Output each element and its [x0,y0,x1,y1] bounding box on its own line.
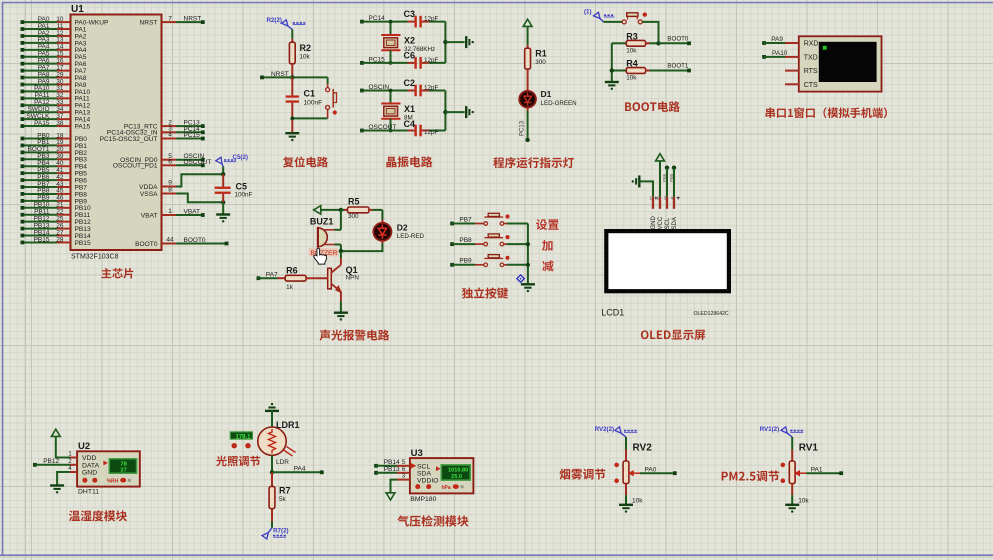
svg-text:VSSA: VSSA [140,191,158,198]
svg-text:78: 78 [120,461,127,467]
chip U1 body [71,15,162,251]
svg-text:PB7: PB7 [459,216,472,223]
chip U3 body (BMP180) [410,458,474,493]
net PB12 wire [33,463,37,467]
svg-text:4: 4 [168,132,172,139]
pin PA8 / net PA8 (pin 29) [21,76,25,80]
wire to reset button [327,77,329,83]
crystal X2 32.768KHz [390,22,392,35]
svg-text:1: 1 [168,208,172,215]
net BOOT1 wire [659,70,690,72]
wire PB8 button to rail [504,243,507,245]
svg-text:RV1: RV1 [799,443,819,454]
svg-text:300: 300 [535,59,546,66]
U3 pin SDA (6) [397,472,410,474]
svg-text:PA15: PA15 [34,120,50,127]
DHT11 display screen [104,461,108,465]
wire right rail (X2) [444,22,446,63]
ground (reset) [285,132,299,134]
svg-text:OSCIN: OSCIN [369,84,390,91]
svg-text:VDDIO: VDDIO [417,477,439,484]
caption 程序运行指示灯 [493,157,574,168]
svg-text:C1: C1 [304,89,316,99]
ground (C5) [216,213,230,215]
svg-text:PC14: PC14 [369,15,386,22]
net PA7 wire [257,276,261,280]
wire NRST horizontal [262,76,292,78]
svg-text:300: 300 [348,213,359,220]
svg-text:R7: R7 [279,486,291,496]
svg-text:R3: R3 [626,31,638,41]
svg-text:PC15-OSC32_OUT: PC15-OSC32_OUT [100,136,158,143]
resistor R1 300 [527,45,529,48]
pin PA7 / net PA7 (pin 17) [21,69,25,73]
svg-text:VDDA: VDDA [139,184,158,191]
wire LDR to PA4 node [271,455,273,472]
pin PA10 / net PA10 (pin 31) [21,90,25,94]
svg-text:PC15: PC15 [184,132,201,139]
capacitor C3 12pF [408,21,415,23]
OLED pin VCC (pin 2) [659,197,661,209]
svg-text:RV2: RV2 [633,443,653,454]
net SCL wire [665,166,669,170]
wire flag to boot button [604,21,623,23]
node rail mid (X2) [443,40,447,44]
ground (BOOT) [605,81,619,83]
wire boot button to BOOT0 node [642,22,658,43]
DHT11 buttons [82,478,87,483]
resistor R3 10k [612,42,627,44]
caption 串口1窗口（模拟手机端） [766,107,887,118]
svg-text:TXD: TXD [804,55,818,62]
svg-text:NRST: NRST [184,16,202,23]
caption BOOT电路 [625,101,680,112]
svg-text:R2(2): R2(2) [267,17,282,24]
node PC13 (indicator) [525,138,529,142]
caption 减 [542,260,553,271]
svg-text:U3: U3 [411,448,423,459]
pin PA12 / net PA12 (pin 33) [21,103,25,107]
net OSCIN wire [360,89,364,93]
push-button (PB9) [475,264,484,266]
pin PB9 / net PB9 (pin 46) [21,199,25,203]
svg-text:C5: C5 [236,182,248,192]
net PB13 wire [374,471,378,475]
pin PC15-OSC32_OUT (pin 4) [162,138,177,140]
power arrow (alarm, left-pointing) [314,206,321,214]
pin VDDA (pin 9) [162,186,177,188]
caption 烟雾调节 [560,469,606,480]
caption 加 [542,240,553,251]
resistor R7 5k [271,472,273,486]
svg-text:BOOT0: BOOT0 [135,241,158,248]
svg-text:BMP180: BMP180 [410,496,436,503]
U3 pin VDDIO (3) [397,479,410,481]
caption 独立按键 [462,287,508,298]
svg-text:%RH: %RH [107,478,119,484]
svg-text:10k: 10k [300,54,311,61]
pin PB11 / net PB11 (pin 22) [21,213,25,217]
svg-text:GND: GND [651,216,657,230]
pin PB4 / net PB4 (pin 40) [21,164,25,168]
svg-text:PB14: PB14 [384,459,400,466]
wire keys right rail [527,224,529,285]
node R5 left junction [339,208,343,212]
svg-text:179.1: 179.1 [235,434,251,440]
LED D2 LED-RED [381,220,383,223]
svg-text:SCL: SCL [417,464,430,471]
net SDA wire [672,166,676,170]
RV1 adjust dots [781,463,786,468]
svg-text:C6: C6 [404,51,416,61]
net PC14 wire [360,20,364,24]
svg-text:OSCOUT_PD1: OSCOUT_PD1 [113,163,158,170]
wire power to R1 [527,26,529,44]
caption 复位电路 [283,156,328,167]
wire D1 to PC13 node [527,108,529,112]
BMP180 buttons [415,484,420,489]
BUZZER value label (highlighted) [309,248,339,256]
terminal pin TXD [785,56,799,58]
svg-text:LED-GREEN: LED-GREEN [541,100,577,107]
terminal screen [819,42,877,82]
svg-text:NPN: NPN [346,275,360,282]
pin PA9 / net PA9 (pin 30) [21,83,25,87]
svg-text:100nF: 100nF [304,100,323,107]
net PA10 wire [762,55,766,59]
potentiometer RV2 10k [625,450,627,462]
net PB8 wire [450,242,454,246]
wire left rail (BOOT) [611,43,613,82]
svg-text:RXD: RXD [804,41,819,48]
svg-text:Q1: Q1 [346,265,358,275]
svg-text:OLED128642C: OLED128642C [694,311,729,317]
svg-text:OSCOUT: OSCOUT [184,159,212,166]
RV2 wiper [629,471,633,476]
wire ground to LDR [271,411,273,427]
svg-text:BOOT0: BOOT0 [667,35,689,42]
pin BOOT0 (pin 44) [162,243,177,245]
net flag RV1(2) [781,427,787,433]
net PA1 wire [806,472,841,474]
pin VSSA (pin 8) [162,193,177,195]
svg-text:PA0: PA0 [645,466,657,473]
net PB7 wire [450,222,454,226]
wire D2 to collector node [381,240,383,243]
U3 pin SCL (5) [397,465,410,467]
pin PA0-WKUP / net PA0 (pin 10) [21,20,25,24]
svg-text:100nF: 100nF [235,192,253,199]
net flag R7(2) [262,533,268,539]
svg-text:PB15: PB15 [34,236,50,243]
resistor R2 10k [291,39,293,42]
buzzer pin wires [325,229,335,231]
svg-text:PA10: PA10 [772,50,788,57]
svg-text:PC15: PC15 [369,56,386,63]
node NRST junction [290,75,294,79]
svg-text:12pF: 12pF [424,16,439,23]
svg-text:RV2(2): RV2(2) [595,426,615,433]
wire flag to R2 [291,30,293,39]
svg-text:PA1: PA1 [811,466,823,473]
svg-text:44: 44 [166,237,174,244]
caption 温湿度模块 [69,510,127,521]
pin PB2 / net BOOT1 (pin 20) [21,150,25,154]
pin order markers [655,197,657,200]
ground (keys) [521,283,535,285]
pin NRST (pin 7) [162,21,177,23]
pin PA13 / net SWDIO (pin 34) [21,110,25,114]
svg-text:X2: X2 [404,36,415,46]
svg-text:VBAT: VBAT [141,212,158,219]
pin PB8 / net PB8 (pin 45) [21,192,25,196]
svg-text:SDA: SDA [672,217,678,229]
node R4 left junction [610,68,614,72]
svg-text:BUZ1: BUZ1 [310,217,334,227]
terminal pin RTS [785,70,799,72]
svg-text:C4: C4 [404,119,416,129]
wire OLED VCC pin [659,161,661,197]
node PA4 junction [270,470,274,474]
svg-text:28: 28 [56,236,64,243]
ground (alarm) [334,312,348,314]
svg-text:PA4: PA4 [294,466,306,473]
RV1 wiper [795,471,799,476]
svg-text:7: 7 [168,15,172,22]
svg-text:LDR1: LDR1 [276,420,300,430]
svg-text:C3: C3 [404,9,416,19]
LCD1 OLED body [606,231,729,291]
LDR value box 179.1 [230,432,252,439]
svg-text:12pF: 12pF [424,57,439,64]
pin PA5 / net PA5 (pin 15) [21,55,25,59]
svg-text:R5: R5 [348,197,360,207]
net PB9 wire [450,263,454,267]
terminal pin CTS [785,83,799,85]
wire VDDIO down [391,480,398,493]
pin PC13_RTC (pin 2) [162,125,177,127]
svg-text:38: 38 [56,120,64,127]
net PB14 wire [374,464,378,468]
pin PB0 / net PB0 (pin 18) [21,137,25,141]
svg-text:PB12: PB12 [43,458,59,465]
wire to ground (X1) [445,111,464,113]
wire PB7 button to rail [504,223,507,225]
svg-text:PA7: PA7 [266,271,278,278]
svg-text:12pF: 12pF [424,129,439,136]
svg-text:VCC: VCC [658,216,664,229]
svg-text:STM32F103C8: STM32F103C8 [71,254,119,261]
U2 pin GND (4) [70,471,77,473]
caption 主芯片 [101,268,133,279]
svg-text:25.0: 25.0 [451,474,462,480]
pin PA15 / net PA15 (pin 38) [21,124,25,128]
svg-text:PB6: PB6 [662,173,667,182]
net flag (1) [594,12,601,18]
svg-text:U1: U1 [71,4,84,15]
caption 晶振电路 [386,156,432,167]
OLED pin GND (pin 1) [652,197,654,209]
terminal cursor [823,46,827,50]
svg-text:D2: D2 [397,223,408,233]
wire VSSA to C5 bottom node [176,194,223,203]
svg-text:PA15: PA15 [75,123,91,130]
power arrow (indicator VCC) [523,19,532,26]
svg-text:12pF: 12pF [424,85,439,92]
node collector junction [339,249,343,253]
svg-text:C2: C2 [404,78,416,88]
node C5 top junction [221,172,225,176]
svg-text:1010.80: 1010.80 [448,468,468,474]
ground (X2, right-pointing) [465,36,467,48]
pin PB6 / net PB6 (pin 42) [21,178,25,182]
wire power to R5 node [321,209,341,211]
node rail mid (X1) [443,110,447,114]
push-button (PB8) [475,243,484,245]
LED D1 LED-GREEN [519,91,536,108]
net PA9 wire [762,41,766,45]
caption OLED显示屏 [641,330,705,340]
net OSCOUT wire [360,129,364,133]
svg-text:PB5: PB5 [669,173,674,182]
svg-text:5k: 5k [279,496,287,503]
push-button (reset) [327,84,329,88]
ground (OLED, left-pointing) [638,175,640,187]
svg-text:BOOT1: BOOT1 [667,63,689,70]
push-button (BOOT0 select) [622,20,626,24]
svg-text:DHT11: DHT11 [78,489,99,496]
terminal pin RXD [785,42,799,44]
pin VBAT (pin 1) [162,214,177,216]
pin PB3 / net PB3 (pin 39) [21,157,25,161]
wire RV1 to ground [791,495,793,505]
resistor R4 10k [612,70,627,72]
transistor Q1 NPN [340,251,342,258]
ground (RV2) [619,504,633,506]
pin PA3 / net PA3 (pin 13) [21,41,25,45]
BMP180 display screen [436,467,440,471]
virtual terminal body [799,36,882,91]
svg-text:10k: 10k [632,498,643,505]
svg-text:C5(2): C5(2) [233,154,248,161]
svg-text:NRST: NRST [140,20,158,27]
capacitor C4 12pF [408,130,415,132]
wire reset button to ground net [327,109,329,118]
potentiometer RV1 10k [791,450,793,462]
capacitor C2 12pF [408,90,415,92]
svg-text:R1: R1 [535,49,547,59]
origin marker (blue diamond) [517,275,524,282]
net flag R2(2) [282,20,288,26]
svg-text:9: 9 [168,180,172,187]
svg-text:U2: U2 [78,441,90,452]
svg-text:PB15: PB15 [75,240,91,247]
wire to ground (X2) [445,41,464,43]
svg-text:LED-RED: LED-RED [397,233,425,240]
svg-text:PA9: PA9 [771,36,783,43]
node C5 bottom junction [221,200,225,204]
svg-text:SCL: SCL [665,217,671,229]
pin PB13 / net PB13 (pin 26) [21,227,25,231]
pin PA11 / net PA11 (pin 32) [21,96,25,100]
svg-text:10k: 10k [626,75,637,82]
wire RV2 to ground [625,495,627,505]
svg-text:VDD: VDD [82,455,96,462]
svg-text:CTS: CTS [804,82,818,89]
wire emitter to ground [340,292,342,301]
capacitor C5 [222,174,224,186]
capacitor C6 12pF [408,62,415,64]
pin PB10 / net PB10 (pin 21) [21,206,25,210]
pin PB7 / net PB7 (pin 43) [21,185,25,189]
svg-text:LDR: LDR [276,459,289,466]
svg-text:DATA: DATA [82,463,100,470]
svg-text:10k: 10k [626,47,637,54]
pin PC14-OSC32_IN (pin 3) [162,131,177,133]
buzzer BUZ1 [318,228,327,247]
pin OSCOUT_PD1 (pin 6) [162,164,177,166]
crystal X1 8M [390,91,392,104]
svg-text:8: 8 [168,187,172,194]
svg-text:1k: 1k [286,284,294,291]
pin PB1 / net PB1 (pin 19) [21,144,25,148]
net flag RV2(2) [615,427,621,433]
ground (RV1) [785,504,799,506]
svg-text:PB8: PB8 [459,237,472,244]
wire flag to RV2 [625,437,627,450]
pin PA4 / net PA4 (pin 14) [21,48,25,52]
svg-text:OSCOUT: OSCOUT [369,124,397,131]
pin OSCIN_PD0 (pin 5) [162,159,177,161]
pin PA6 / net PA6 (pin 16) [21,62,25,66]
wire VDD [56,436,70,457]
svg-text:X1: X1 [404,104,415,114]
svg-text:BOOT0: BOOT0 [184,237,206,244]
svg-text:LCD1: LCD1 [601,308,624,318]
resistor R6 1k [278,277,286,279]
wire GND to ground [57,472,70,486]
power arrow (DHT11 VDD) [51,429,60,436]
chip U2 body (DHT11) [77,451,140,486]
svg-text:27: 27 [120,468,126,474]
photoresistor LDR1 [258,427,286,455]
svg-text:R7(2): R7(2) [273,527,288,534]
caption 设置 [536,219,559,230]
wire OLED GND pin [639,181,653,196]
OLED pin SCL (pin 3) [666,197,668,209]
OLED pin SDA (pin 4) [673,197,675,209]
capacitor C1 100nF [291,77,293,95]
caption 光照调节 [216,456,260,467]
svg-text:RV1(2): RV1(2) [760,426,780,433]
net PA0 wire [640,472,675,474]
wire right rail (X1) [444,91,446,131]
svg-text:(1): (1) [584,8,592,15]
pin PA2 / net PA2 (pin 12) [21,34,25,38]
net BOOT0 wire [659,42,690,44]
svg-text:PC13: PC13 [520,120,526,136]
mouse hand cursor [313,248,326,264]
power arrow (BMP180, down-pointing) [386,493,395,500]
node BOOT0 junction [656,41,660,45]
ground (LDR top, up-pointing) [265,410,279,412]
svg-text:RTS: RTS [804,68,818,75]
LDR adjust buttons [232,443,237,448]
push-button (PB7) [475,223,484,225]
svg-text:6: 6 [168,159,172,166]
U2 pin VDD (1) [70,457,77,459]
svg-text:R4: R4 [626,59,638,69]
